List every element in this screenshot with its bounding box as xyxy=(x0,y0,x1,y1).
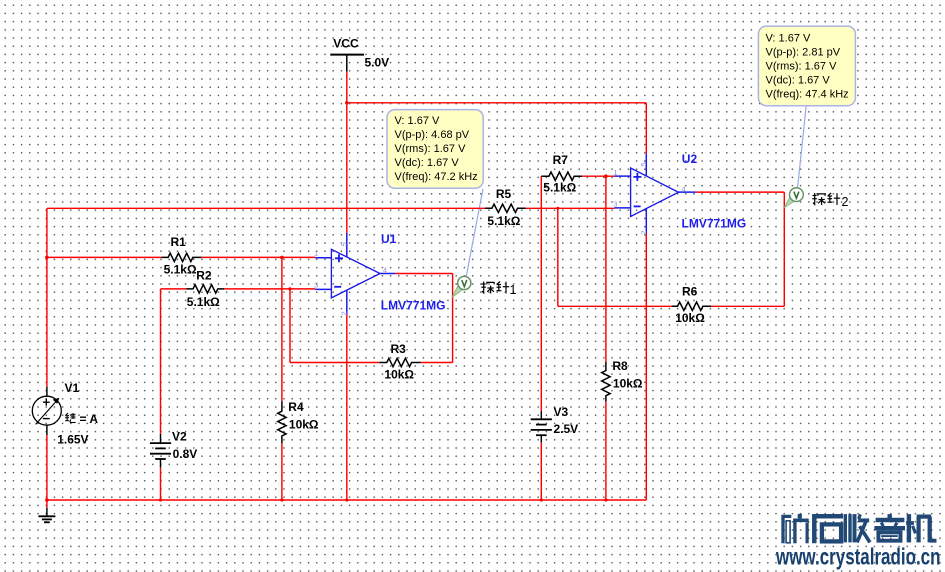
wire V2 corner to R2 left xyxy=(161,288,187,290)
svg-text:5.1kΩ: 5.1kΩ xyxy=(543,180,576,194)
resistor R6 xyxy=(672,302,711,310)
node ground rail at V1 xyxy=(45,498,49,502)
svg-text:R7: R7 xyxy=(553,153,569,167)
resistor R5 xyxy=(485,204,526,212)
svg-text:V(rms): 1.67 V: V(rms): 1.67 V xyxy=(766,61,838,73)
svg-text:V(rms): 1.67 V: V(rms): 1.67 V xyxy=(395,143,467,155)
node U1 inverting junction xyxy=(288,287,291,290)
wire rail to R1 xyxy=(47,256,161,258)
svg-text:10kΩ: 10kΩ xyxy=(675,311,705,325)
wire R5 to U2 inverting input xyxy=(526,207,615,209)
leader line from probe 1 to measurement box xyxy=(466,189,483,277)
wire VCC stub to junction xyxy=(346,72,348,103)
svg-text:V3: V3 xyxy=(554,405,569,419)
svg-text:2: 2 xyxy=(842,195,849,209)
wire U2 feedback vertical xyxy=(783,192,785,306)
wire R6 right horizontal xyxy=(711,305,784,307)
svg-text:5: 5 xyxy=(339,242,348,246)
node ground rail at R4 xyxy=(280,498,283,501)
logo char ji xyxy=(907,514,911,542)
logo char shi xyxy=(814,516,843,543)
svg-text:VCC: VCC xyxy=(333,37,359,51)
svg-text:3: 3 xyxy=(613,199,617,208)
wire node A down to R4 xyxy=(281,257,283,401)
wire input rail horizontal left of R5 xyxy=(47,207,485,209)
svg-text:10kΩ: 10kΩ xyxy=(613,377,643,391)
logo char shou xyxy=(844,514,847,542)
resistor R7 xyxy=(541,172,582,180)
svg-text:V(dc): 1.67 V: V(dc): 1.67 V xyxy=(766,75,831,87)
resistor R8 (vertical) xyxy=(602,362,610,402)
wire down to U1 pin 5 xyxy=(346,103,348,233)
wire U2 output xyxy=(696,191,785,193)
node R7/R8 junction xyxy=(604,174,608,178)
resistor R3 xyxy=(379,358,420,366)
battery V3 xyxy=(531,411,552,442)
svg-text:R4: R4 xyxy=(288,400,304,414)
svg-text:2: 2 xyxy=(639,230,648,234)
wire R4 bottom to ground rail xyxy=(281,443,283,500)
wire R8 bottom to ground rail xyxy=(605,401,607,500)
svg-text:R6: R6 xyxy=(682,284,698,298)
svg-text:V(p-p): 2.81 pV: V(p-p): 2.81 pV xyxy=(766,47,841,59)
op-amp U2 xyxy=(614,154,695,233)
op-amp U1 xyxy=(315,233,395,314)
svg-text:R8: R8 xyxy=(612,359,628,373)
svg-text:R5: R5 xyxy=(496,187,512,201)
wire R3 left segment xyxy=(290,362,379,364)
wire U1 feedback vertical xyxy=(452,274,454,363)
svg-text:5.1kΩ: 5.1kΩ xyxy=(164,263,197,277)
resistor R1 xyxy=(161,253,201,261)
resistor R2 xyxy=(186,285,224,293)
probe 2 xyxy=(784,188,803,208)
svg-text:1.65V: 1.65V xyxy=(57,433,88,447)
svg-text:U1: U1 xyxy=(381,232,397,246)
svg-text:10kΩ: 10kΩ xyxy=(384,368,414,382)
logo char yin xyxy=(888,514,892,518)
probe 1 label xyxy=(481,282,516,297)
svg-text:R1: R1 xyxy=(171,235,187,249)
svg-text:5.1kΩ: 5.1kΩ xyxy=(187,295,220,309)
wire R3 right segment xyxy=(421,362,453,364)
wire U1 pin 2 down to ground rail xyxy=(346,314,348,500)
node VCC junction xyxy=(345,101,349,105)
svg-text:www.crystalradio.cn: www.crystalradio.cn xyxy=(775,543,940,569)
battery V2 xyxy=(150,434,171,468)
svg-text:V1: V1 xyxy=(65,381,80,395)
wire U1 output xyxy=(395,273,452,275)
measurement box probe 1 xyxy=(387,110,483,189)
wire bottom ground rail xyxy=(47,499,646,501)
svg-text:1: 1 xyxy=(510,283,517,297)
node ground rail at U1 pin2 xyxy=(345,498,348,501)
svg-text:2: 2 xyxy=(339,311,348,315)
node ground rail at V3 xyxy=(540,498,543,501)
svg-text:2.5V: 2.5V xyxy=(554,422,579,436)
svg-text:V(p-p): 4.68 pV: V(p-p): 4.68 pV xyxy=(395,129,470,141)
svg-text:V(freq): 47.2 kHz: V(freq): 47.2 kHz xyxy=(395,171,478,183)
svg-text:V(freq): 47.4 kHz: V(freq): 47.4 kHz xyxy=(766,89,849,101)
wire U2 pin 2 down to ground rail xyxy=(645,233,647,500)
node rail to R1 xyxy=(45,256,49,260)
wire left rail vertical to V1 xyxy=(46,208,48,386)
resistor R4 (vertical) xyxy=(278,401,286,443)
svg-text:V: 1.67 V: V: 1.67 V xyxy=(395,115,441,127)
svg-text:4: 4 xyxy=(682,184,686,193)
source V1 xyxy=(32,387,61,435)
watermark logo xyxy=(783,514,937,543)
wire VCC top horizontal to U2 V+ xyxy=(347,102,647,104)
svg-text:U2: U2 xyxy=(682,152,698,166)
wire down to U2 pin 5 xyxy=(645,103,647,154)
svg-text:LMV771MG: LMV771MG xyxy=(381,298,446,312)
svg-text:R2: R2 xyxy=(196,268,212,282)
wire R2 to U1 inverting input xyxy=(224,288,315,290)
power symbol VCC xyxy=(330,55,364,72)
measurement box probe 2 xyxy=(758,26,855,106)
probe 1 xyxy=(452,276,471,297)
wire R7 node down to R8 xyxy=(605,176,607,362)
wire R6 left horizontal xyxy=(558,305,672,307)
svg-text:1: 1 xyxy=(314,249,318,258)
svg-text:V(dc): 1.67 V: V(dc): 1.67 V xyxy=(395,157,460,169)
value label key = A xyxy=(65,413,75,422)
wire R7 to U2 non-inverting input xyxy=(582,175,614,177)
logo char kuang xyxy=(783,516,791,543)
wire inverting node down to R3 xyxy=(289,289,291,363)
wire R6 left vertical to inverting node xyxy=(557,208,559,306)
wire R1 to U1 non-inverting input xyxy=(201,256,315,258)
svg-text:V: 1.67 V: V: 1.67 V xyxy=(766,33,812,45)
wire V1 bottom to ground rail xyxy=(46,435,48,508)
wire V2 bottom to ground rail xyxy=(160,468,162,500)
svg-text:LMV771MG: LMV771MG xyxy=(682,216,747,230)
svg-text:R3: R3 xyxy=(391,342,407,356)
svg-text:= A: = A xyxy=(80,412,99,426)
node ground rail at R8 xyxy=(604,498,607,501)
svg-text:0.8V: 0.8V xyxy=(173,447,198,461)
wire R7 left down to V3 xyxy=(540,176,542,411)
ground xyxy=(38,508,55,523)
leader line from probe 2 to measurement box xyxy=(798,106,807,187)
svg-text:10kΩ: 10kΩ xyxy=(289,418,319,432)
svg-text:V2: V2 xyxy=(172,429,187,443)
wire V2 top to R2 xyxy=(160,289,162,434)
node ground rail at V2 xyxy=(159,498,162,501)
probe 2 label xyxy=(812,193,848,209)
svg-text:5.0V: 5.0V xyxy=(365,56,390,70)
svg-text:1: 1 xyxy=(613,168,617,177)
node A R1/R4 xyxy=(280,256,284,260)
svg-text:4: 4 xyxy=(383,265,387,274)
wire V3 bottom to ground rail xyxy=(540,442,542,500)
node R5/R6 junction xyxy=(556,207,559,210)
svg-text:5: 5 xyxy=(639,162,648,166)
svg-text:5.1kΩ: 5.1kΩ xyxy=(487,214,520,228)
svg-text:3: 3 xyxy=(314,281,318,290)
